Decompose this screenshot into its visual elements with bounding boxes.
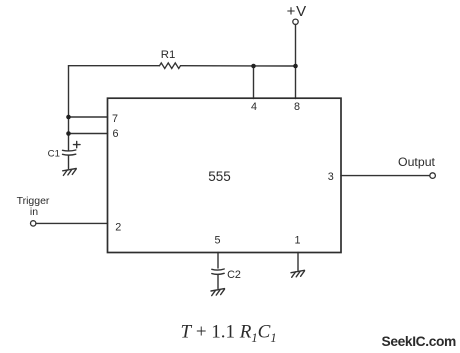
svg-text:8: 8 bbox=[294, 101, 300, 113]
capacitor C1 bbox=[63, 141, 81, 168]
terminal +V bbox=[293, 19, 298, 24]
svg-text:3: 3 bbox=[328, 171, 334, 183]
wire left vertical from top rail to C1 bbox=[68, 66, 70, 150]
svg-text:R1: R1 bbox=[161, 49, 176, 61]
node pin6 junction bbox=[66, 131, 71, 136]
node rail pin8 junction bbox=[293, 64, 298, 69]
ground (under C2) bbox=[211, 289, 225, 296]
wire trigger to pin 2 bbox=[36, 222, 108, 224]
wire pin 3 output bbox=[341, 175, 430, 177]
svg-text:6: 6 bbox=[112, 128, 118, 140]
wire C2 to ground bbox=[217, 275, 219, 289]
svg-text:SeekIC.com: SeekIC.com bbox=[382, 334, 457, 349]
wire top rail left segment bbox=[69, 65, 160, 67]
svg-text:1: 1 bbox=[294, 235, 300, 247]
svg-text:2: 2 bbox=[115, 221, 121, 233]
terminal trigger bbox=[31, 221, 36, 226]
wire pin 1 to ground bbox=[297, 253, 299, 271]
svg-text:7: 7 bbox=[112, 113, 118, 125]
svg-text:5: 5 bbox=[214, 235, 220, 247]
svg-text:T + 1.1 R1C1: T + 1.1 R1C1 bbox=[181, 322, 277, 346]
wire pin 5 to C2 bbox=[217, 253, 219, 269]
svg-text:C1: C1 bbox=[48, 149, 60, 160]
IC U1 555 timer body bbox=[108, 98, 342, 252]
svg-text:in: in bbox=[30, 206, 38, 218]
terminal output bbox=[430, 173, 436, 179]
capacitor C2 bbox=[212, 269, 224, 274]
svg-text:555: 555 bbox=[208, 169, 231, 184]
svg-text:Output: Output bbox=[398, 155, 435, 169]
resistor R1 bbox=[160, 63, 181, 69]
ground (under C1) bbox=[63, 169, 76, 176]
svg-text:+V: +V bbox=[287, 3, 307, 20]
wire pin 4 drop bbox=[253, 66, 255, 99]
wire pin 6 bbox=[69, 133, 108, 135]
ground (pin 1) bbox=[291, 270, 305, 277]
wire top rail right segment bbox=[181, 65, 296, 67]
wire +V drop to rail bbox=[295, 25, 297, 67]
node rail pin4 junction bbox=[251, 64, 256, 69]
svg-text:C2: C2 bbox=[227, 269, 241, 281]
svg-text:4: 4 bbox=[251, 101, 257, 113]
node pin7 junction bbox=[66, 115, 71, 120]
wire pin 7 bbox=[69, 116, 108, 118]
wire pin 8 drop bbox=[295, 66, 297, 99]
